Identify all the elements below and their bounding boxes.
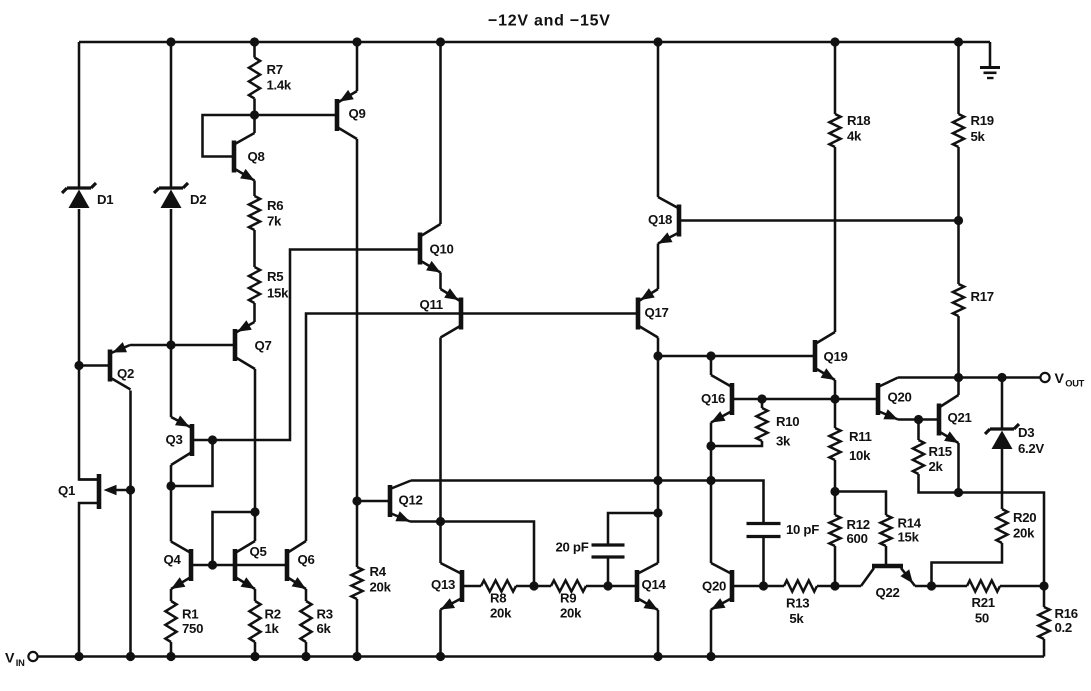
wire: R12 node to R14 [835,492,886,516]
wire: Q8 emitter to R6 [253,181,256,197]
wire: Q1 source to bottom rail [79,503,99,657]
wire: R12 node to Q22 collector [835,585,861,588]
wire: top rail to R19 [957,42,960,114]
svg-text:R11: R11 [849,429,872,444]
resistor R15 [913,440,952,474]
wire: Q3 emitter node down to Q4 collector [170,465,173,542]
wire: D1 anode down through Q2 base node to Q1 drain [79,209,99,480]
wire: R10 top lead [761,399,764,408]
wire: top rail to Q18 collector [657,42,660,197]
svg-text:4k: 4k [847,129,862,144]
input terminal VIN [5,651,38,669]
svg-text:IN: IN [16,658,25,668]
svg-text:R12: R12 [847,517,870,532]
svg-text:R19: R19 [971,113,994,128]
wire: Q20 emitter to Q21 base [898,418,939,421]
wire: top rail down to D1 cathode [78,42,81,188]
resistor R16 [1038,606,1077,639]
ground [980,68,1000,79]
transistor Q9 [337,90,366,139]
wire: Q14 emitter to bottom rail [657,610,660,657]
wire: node to R4 [356,501,359,567]
resistor R10 [756,408,799,449]
capacitor C1 20pF [556,540,625,558]
svg-text:Q9: Q9 [349,106,366,121]
resistor R12 [829,515,869,546]
svg-text:7k: 7k [267,214,282,229]
svg-text:Q19: Q19 [824,349,848,364]
transistor Q6 [287,541,315,589]
wire: Q12 collector line to 10pF cap [411,481,764,524]
wire: VOUT node to D3 cathode [1001,378,1004,430]
svg-text:1.4k: 1.4k [267,78,292,93]
wire: R16 leads [1043,586,1046,657]
svg-text:R13: R13 [786,596,809,611]
wire: R18 to Q19 collector [834,147,837,332]
svg-text:Q22: Q22 [876,585,900,600]
capacitor C2 10pF [747,522,820,537]
wire: Q16 base line to Q20 base [732,398,878,401]
svg-text:Q1: Q1 [58,483,75,498]
svg-text:3k: 3k [776,434,791,449]
svg-text:Q13: Q13 [431,577,455,592]
resistor R3 [300,601,332,642]
resistor R19 [953,113,994,147]
wire: 10pF bottom lead [762,537,765,587]
wire: Q6 emitter to R3 [305,589,308,601]
wire: Q10 emitter to Q11 collector [439,273,442,290]
wire: Q8 base loop to node and Q9 base [203,115,338,157]
resistor R20 [996,509,1036,543]
svg-text:V: V [1055,371,1065,387]
svg-text:R15: R15 [929,444,952,459]
wire: Q6 collector up to Q11 Q17 base line [306,314,638,542]
svg-text:R2: R2 [265,607,281,622]
svg-text:Q17: Q17 [645,305,669,320]
svg-text:Q2: Q2 [117,366,134,381]
wire: Q8 collector stub [253,115,256,133]
wire: Q2 base from left column [79,364,110,367]
transistor Q19 [815,332,848,380]
wire: Q5 emitter to R2 [254,589,257,601]
wire: Q11 emitter down to Q13 collector [439,338,442,564]
transistor Q17 [638,288,669,337]
svg-text:Q10: Q10 [430,242,454,257]
svg-text:10k: 10k [849,448,871,463]
svg-text:R9: R9 [560,591,576,606]
svg-text:R1: R1 [182,607,198,622]
svg-text:Q20: Q20 [702,579,726,594]
svg-text:600: 600 [847,531,868,546]
wire: R2 to bottom rail [254,642,257,657]
wire: R15 bottom to Q21 emitter node [919,474,959,493]
wire: Q20 collector to VOUT line [898,376,1041,379]
wire: Q12 emitter to R8 R9 node [410,522,534,587]
wire: Q18 base to R19 R17 node [679,219,959,222]
svg-text:5k: 5k [786,611,804,626]
wire: R21 to R16 node [1000,585,1044,588]
transistor Q20 lower [702,563,732,610]
svg-text:Q20: Q20 [888,390,912,405]
wire: R7 top lead [253,42,256,58]
svg-text:V: V [5,651,15,667]
svg-text:R20: R20 [1013,510,1036,525]
wire: node to R13 [764,585,785,588]
wire: top rail down to D2 cathode [170,42,173,188]
svg-text:R14: R14 [898,516,922,531]
svg-text:5k: 5k [971,129,986,144]
output terminal VOUT [1040,371,1084,389]
wire: node to Q16 collector [710,356,713,375]
svg-text:Q12: Q12 [399,493,423,508]
svg-text:10 pF: 10 pF [786,522,819,537]
wire: 20pF top lead to Q14 collector column [608,513,658,545]
wire: R13 to R12 node [817,585,835,588]
transistor Q20 upper [878,378,912,420]
svg-text:R7: R7 [267,62,283,77]
wire: R3 to bottom rail [305,642,308,657]
transistor Q1 [58,474,117,509]
wire: Q13 emitter to bottom rail [439,610,442,657]
wire: node to R9 [534,585,551,588]
wire: R11 to R12 node [834,460,837,492]
svg-text:2k: 2k [929,459,944,474]
svg-text:Q16: Q16 [701,391,725,406]
transistor Q5 [235,541,267,589]
resistor R9 [551,580,586,620]
svg-text:R4: R4 [370,564,387,579]
resistor R5 [249,267,289,303]
svg-text:15k: 15k [898,530,920,545]
resistor R17 [953,284,994,316]
wire: bottom input rail [38,655,1045,658]
svg-text:Q8: Q8 [248,149,265,164]
svg-text:20k: 20k [490,606,512,621]
wire: D3 anode to R20 [1001,447,1004,509]
svg-text:Q21: Q21 [948,410,972,425]
svg-text:Q11: Q11 [420,297,443,312]
transistor Q22 [861,566,915,600]
wire: R15 top lead [917,420,920,441]
wire: R7 bottom to node [253,99,256,116]
wire: Q1 gate lead [112,489,131,492]
transistor Q16 [701,375,732,423]
wire: Q13 base to R8 [462,585,481,588]
resistor R11 [829,428,871,463]
wire: top rail to Q10 collector [439,42,442,224]
wire: R4 to bottom rail [356,599,359,657]
wire: Q2 emitter line to Q7 base [130,344,235,347]
svg-text:20k: 20k [1013,526,1035,541]
svg-text:20 pF: 20 pF [556,540,589,555]
resistor R21 [967,580,1000,625]
resistor R1 [165,601,203,642]
svg-text:R16: R16 [1055,606,1078,621]
wire: Q18 emitter to Q17 emitter [657,244,660,290]
wire: Q4 Q5 Q6 base rail [191,564,287,567]
wire: Q21 collector stub [957,378,960,396]
transistor Q8 [234,133,265,181]
transistor Q3 [166,416,193,466]
svg-text:R6: R6 [267,198,283,213]
wire: ground stem from top rail [989,42,992,67]
wire: R17 to VOUT line [957,316,960,378]
wire: R12 to R13 node [834,546,837,586]
svg-text:750: 750 [182,621,203,636]
wire: node to R21 [932,585,968,588]
transistor Q14 [637,563,666,610]
wire: Q21 emitter down to R15 node [957,443,960,493]
wire: Q21 emitter node to R16 node [959,493,1045,587]
zener diode D3 [985,424,1044,456]
svg-text:−12V and −15V: −12V and −15V [488,13,611,30]
resistor R8 [481,580,516,620]
svg-text:R5: R5 [267,269,283,284]
wire: R1 to bottom rail [170,642,173,657]
transistor Q2 [110,342,134,389]
wire: Q16 emitter down to Q20 collector [710,423,713,564]
svg-text:15k: 15k [267,286,289,301]
wire: Q3 base node down to emitter node [171,440,213,486]
svg-text:D1: D1 [97,192,113,207]
transistor Q12 [390,481,423,522]
wire: D2 anode down through node to Q3 collector [170,209,173,417]
resistor R2 [249,601,280,642]
wire: Q19 emitter to base node [834,380,837,399]
wire: Q7 collector down to Q5 collector node [254,369,257,541]
wire: R6 to R5 [253,230,256,267]
transistor Q10 [420,224,454,273]
svg-text:Q14: Q14 [642,577,667,592]
transistor Q18 [648,197,679,244]
wire: 20pF bottom lead [607,557,610,586]
svg-text:D2: D2 [190,192,206,207]
wire: node to R17 [957,221,960,285]
wire: R14 to Q22 base [885,546,888,564]
transistor Q11 [420,288,462,337]
transistor Q4 [164,542,192,590]
wire: R5 to Q7 emitter [253,303,256,322]
svg-text:R18: R18 [847,113,870,128]
svg-text:1k: 1k [265,621,280,636]
svg-text:R3: R3 [317,607,333,622]
svg-text:R8: R8 [490,591,506,606]
svg-text:Q4: Q4 [164,552,182,567]
svg-text:R21: R21 [972,595,995,610]
svg-text:Q18: Q18 [648,212,672,227]
svg-text:0.2: 0.2 [1055,620,1072,635]
transistor Q21 [939,395,972,443]
svg-text:20k: 20k [560,606,582,621]
svg-text:6k: 6k [317,621,332,636]
transistor Q13 [431,563,462,610]
resistor R6 [249,196,283,230]
svg-text:50: 50 [972,611,989,626]
wire: Q9 collector down to Q12 base node [356,139,359,501]
svg-text:OUT: OUT [1065,379,1084,389]
wire: R19 to Q18 base node [957,147,960,221]
resistor R7 [249,58,292,99]
wire: R8 to node [516,585,534,588]
resistor R4 [351,564,391,599]
svg-text:Q3: Q3 [166,432,183,447]
resistor R18 [829,113,870,147]
wire: R9 to Q14 base [586,585,637,588]
wire: top rail to R18 [834,42,837,114]
wire: Q2 collector down to Q1 gate and bottom rail [129,391,132,657]
wire: Q4 emitter to R1 [170,589,173,601]
wire: Q20 emitter to bottom rail [710,610,713,657]
wire: Q17 collector node to Q19 base [658,355,815,358]
resistor R13 [784,580,817,626]
wire: R10 bottom lead to Q16 emitter node [711,441,762,446]
svg-text:R10: R10 [776,414,799,429]
wire: Q12 base lead [357,500,390,503]
zener diode D2 [154,183,206,208]
wire: node to R11 [834,399,837,428]
svg-text:D3: D3 [1018,425,1034,440]
svg-text:20k: 20k [370,580,392,595]
transistor Q7 [235,320,272,369]
svg-text:Q6: Q6 [298,552,315,567]
wire: Q20 base to R13 node [732,585,764,588]
wire: R20 to Q22 emitter node [932,543,1003,586]
title label [488,13,611,30]
wire: Q3 base to Q10 base [192,250,420,441]
wire: Q9 emitter stub to top rail [356,42,359,91]
wire: Q5 node across to Q4 base rail [213,512,256,565]
wire: node to R12 [834,492,837,516]
svg-text:Q7: Q7 [255,338,272,353]
resistor R14 [880,515,921,546]
svg-text:R17: R17 [971,289,994,304]
wire: Q17 collector down to Q14 collector [657,338,660,564]
zener diode D1 [62,183,113,208]
svg-text:6.2V: 6.2V [1018,441,1044,456]
wire: Q22 emitter to R21 node [915,585,932,588]
wire: negative supply top rail [79,41,990,44]
svg-text:Q5: Q5 [250,544,267,559]
